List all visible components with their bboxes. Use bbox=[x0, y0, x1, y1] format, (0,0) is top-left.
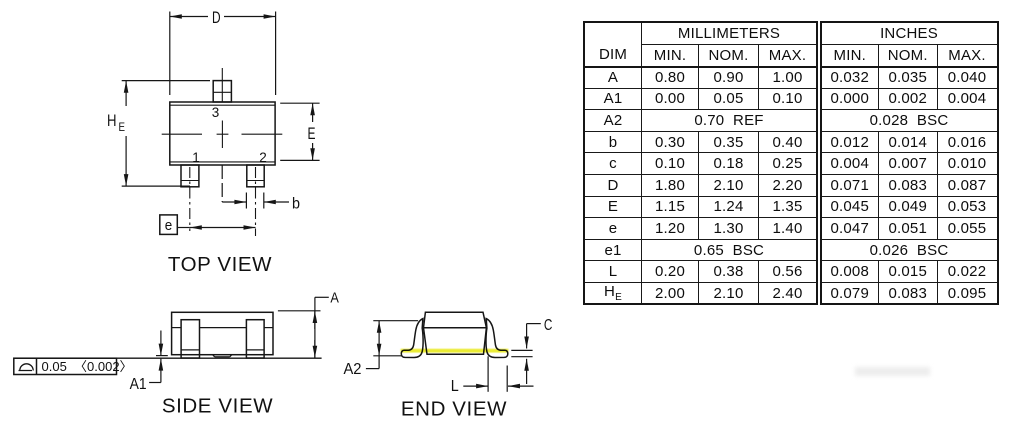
svg-text:3: 3 bbox=[212, 105, 220, 120]
svg-text:e: e bbox=[165, 218, 173, 234]
side pin left bbox=[181, 320, 199, 358]
left lead bbox=[401, 319, 423, 358]
svg-text:A: A bbox=[330, 290, 339, 307]
center cross bbox=[162, 121, 283, 149]
flatness feature control frame bbox=[14, 358, 133, 374]
dimension b bbox=[222, 165, 300, 213]
dimension E bbox=[280, 103, 319, 160]
inches table bbox=[820, 21, 999, 305]
svg-text:E: E bbox=[119, 120, 126, 134]
svg-text:1: 1 bbox=[192, 150, 200, 165]
pin 1 centerline bbox=[189, 167, 191, 231]
dimension e bbox=[160, 215, 256, 235]
end body bbox=[424, 312, 487, 354]
svg-text:A1: A1 bbox=[130, 376, 147, 393]
pin 2 centerline bbox=[255, 167, 257, 236]
pin 1 bbox=[181, 165, 199, 187]
body outline bbox=[170, 102, 275, 165]
pin 3 tab bbox=[213, 68, 231, 102]
svg-text:2: 2 bbox=[259, 150, 267, 165]
svg-text:D: D bbox=[212, 9, 221, 27]
seating plane bbox=[14, 357, 322, 359]
svg-text:E: E bbox=[308, 125, 316, 143]
svg-text:b: b bbox=[292, 196, 300, 213]
svg-text:SIDE VIEW: SIDE VIEW bbox=[162, 395, 273, 418]
dimension A bbox=[278, 290, 339, 358]
dimension C bbox=[511, 317, 552, 384]
dimension A2 bbox=[344, 321, 419, 378]
svg-text:END VIEW: END VIEW bbox=[401, 398, 507, 421]
yellow highlight bbox=[401, 349, 509, 353]
dimension A1 bbox=[130, 331, 168, 394]
millimeters table bbox=[583, 21, 818, 305]
pin 2 bbox=[247, 165, 264, 187]
dimension HE bbox=[107, 81, 210, 187]
side mid line bbox=[172, 327, 273, 329]
svg-text:A2: A2 bbox=[344, 361, 362, 378]
bottom notch bbox=[213, 355, 232, 357]
side body bbox=[172, 312, 273, 354]
svg-text:C: C bbox=[544, 317, 553, 334]
side pin right bbox=[246, 320, 264, 358]
dimension D bbox=[170, 9, 276, 95]
faint watermark remnant bbox=[855, 367, 930, 376]
svg-text:0.05 〈0.002〉: 0.05 〈0.002〉 bbox=[42, 359, 133, 374]
svg-text:L: L bbox=[451, 378, 459, 395]
dimension L bbox=[451, 356, 534, 395]
svg-text:TOP VIEW: TOP VIEW bbox=[168, 253, 272, 276]
right lead bbox=[486, 319, 508, 358]
svg-text:H: H bbox=[107, 112, 117, 130]
